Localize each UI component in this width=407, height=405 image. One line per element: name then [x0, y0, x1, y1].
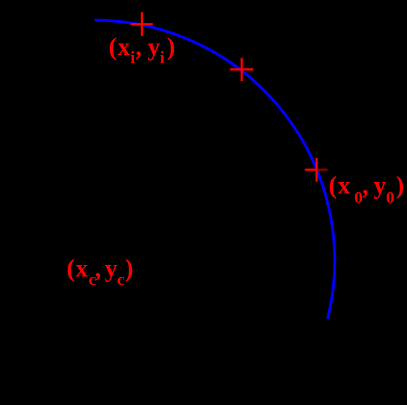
- dark red right arm of (x_0,y_0) marker: [318, 169, 328, 171]
- data point marker + at (x_i, y_i): [131, 12, 153, 36]
- data point marker + (middle point): [230, 58, 253, 81]
- svg-text:(xc,yc): (xc,yc): [67, 256, 134, 289]
- data point marker + at (x_0, y_0): [305, 158, 318, 182]
- svg-text:(xi,yi): (xi,yi): [109, 34, 176, 67]
- svg-text:(x0,y0): (x0,y0): [329, 172, 405, 207]
- blue circular arc (circle centre (x_c,y_c), radius r): [95, 20, 335, 319]
